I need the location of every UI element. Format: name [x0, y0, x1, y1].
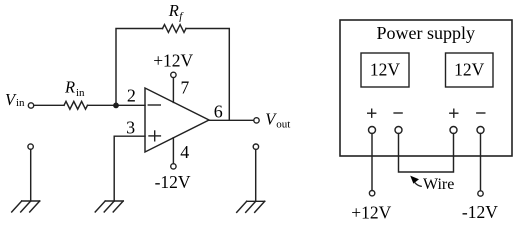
- svg-text:2: 2: [127, 86, 136, 106]
- svg-text:in: in: [16, 97, 25, 109]
- svg-text:7: 7: [181, 78, 190, 98]
- svg-text:+12V: +12V: [351, 203, 391, 222]
- minus terminal label 1: [394, 112, 402, 114]
- terminal ground ref right: [253, 144, 258, 149]
- pin 7 wire: [172, 78, 174, 103]
- terminal +12V out: [369, 191, 374, 196]
- svg-text:12V: 12V: [370, 60, 401, 80]
- svg-text:Power supply: Power supply: [377, 23, 476, 43]
- svg-text:12V: 12V: [454, 60, 485, 80]
- ground: [95, 201, 123, 212]
- wire: [34, 104, 64, 106]
- resistor R_in: [64, 101, 88, 109]
- wire PS2- down: [480, 134, 482, 191]
- node junction: [113, 103, 119, 109]
- battery 12V left: [361, 53, 409, 87]
- svg-text:Wire: Wire: [423, 176, 454, 193]
- svg-text:-12V: -12V: [155, 172, 191, 192]
- resistor Rf: [163, 25, 186, 33]
- wire: [255, 150, 257, 202]
- wire output: [209, 119, 254, 121]
- terminal -12V out: [478, 191, 483, 196]
- wire pin3 to ground: [114, 136, 145, 201]
- ground: [237, 201, 265, 212]
- terminal -12V: [171, 164, 176, 169]
- terminal PS1+: [369, 127, 376, 134]
- terminal PS2+: [450, 127, 457, 134]
- plus terminal label 1: [368, 109, 376, 117]
- svg-text:out: out: [276, 118, 290, 130]
- ground: [12, 201, 40, 212]
- svg-text:+12V: +12V: [153, 50, 193, 70]
- power supply box: [340, 20, 512, 156]
- svg-text:-12V: -12V: [462, 202, 498, 222]
- minus terminal label 2: [477, 112, 485, 114]
- svg-text:R: R: [168, 1, 179, 20]
- terminal PS1-: [395, 127, 402, 134]
- op-amp U1: [145, 88, 209, 152]
- plus terminal label 2: [450, 109, 458, 117]
- wire: [88, 104, 146, 106]
- pin 4 wire: [172, 138, 174, 164]
- svg-text:R: R: [64, 77, 75, 96]
- terminal +12V: [171, 72, 176, 77]
- terminal Vout: [254, 118, 259, 123]
- node Vin label: [5, 90, 25, 109]
- svg-text:in: in: [76, 87, 85, 99]
- wire: [30, 149, 32, 201]
- terminal PS2-: [477, 127, 484, 134]
- terminal Vin: [28, 103, 33, 108]
- wire PS1+ down: [371, 134, 373, 191]
- svg-text:3: 3: [126, 117, 135, 137]
- battery 12V right: [446, 53, 494, 87]
- node Vout label: [265, 109, 290, 130]
- wire jumper PS1- to PS2+: [399, 134, 454, 173]
- terminal ground ref left: [28, 144, 33, 149]
- svg-text:4: 4: [180, 142, 189, 162]
- wire feedback right: [186, 29, 229, 121]
- svg-text:6: 6: [214, 102, 223, 122]
- arrow Wire pointer: [410, 176, 421, 187]
- wire feedback left: [116, 29, 163, 106]
